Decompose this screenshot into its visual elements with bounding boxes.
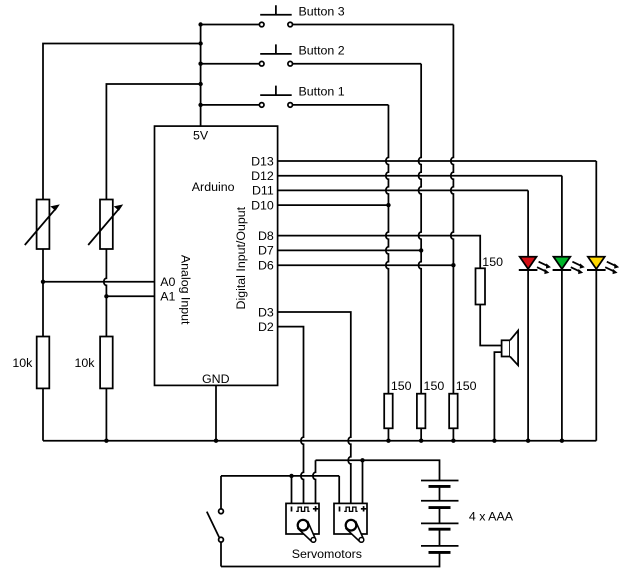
- node A0 junction: [41, 280, 45, 284]
- wire A0 node to resistor R1: [42, 282, 44, 337]
- pushbutton S3 Button 3: [259, 5, 292, 27]
- wire Button 3 left: [201, 24, 259, 26]
- node A1 junction: [104, 294, 108, 298]
- wire resistor R4 to ground rail: [420, 428, 422, 440]
- wire servo M2 plus drop: [362, 460, 364, 503]
- wire servo plus rail to battery: [316, 460, 440, 480]
- resistor R4 150: [417, 394, 426, 429]
- svg-text:GND: GND: [202, 372, 230, 386]
- wire Button 1 right: [293, 104, 389, 106]
- junction D10 on button1 bus: [386, 203, 390, 207]
- wire button2 bus vertical (hops): [419, 64, 422, 394]
- junction bus-pot2: [198, 82, 202, 86]
- svg-text:D11: D11: [252, 184, 274, 198]
- LED2 green: [553, 176, 584, 274]
- svg-text:A0: A0: [160, 275, 175, 289]
- svg-text:150: 150: [456, 379, 477, 393]
- junction R2 ground: [104, 439, 108, 443]
- wire 5V bus vertical: [200, 25, 202, 127]
- junction servo M2 plus: [360, 458, 364, 462]
- svg-text:Button 3: Button 3: [299, 4, 345, 18]
- wire LED3 to ground rail: [595, 270, 597, 441]
- junction bus-btn2: [198, 62, 202, 66]
- svg-text:D13: D13: [251, 154, 274, 168]
- wire D8 to resistor R6: [278, 236, 481, 269]
- junction D7 on button2 bus: [419, 248, 423, 252]
- wire D11 to LED column: [278, 189, 528, 191]
- resistor R3 150: [384, 394, 393, 429]
- wire 5V to pot P2: [106, 84, 200, 200]
- svg-text:D6: D6: [258, 259, 274, 273]
- wire D2 to servo M1 pulse (hops): [278, 327, 304, 504]
- potentiometer P2: [88, 200, 122, 250]
- wire Button 1 left: [201, 104, 259, 106]
- switch SW1: [207, 476, 224, 567]
- resistor R5 150: [449, 394, 458, 429]
- LED1 red: [519, 190, 550, 273]
- wire D13 to LED column: [278, 160, 597, 162]
- pushbutton S2 Button 2: [259, 44, 292, 66]
- junction R4 ground: [419, 439, 423, 443]
- servomotor M1: [286, 503, 319, 542]
- svg-text:4 x AAA: 4 x AAA: [469, 509, 514, 523]
- wire speaker to ground rail: [494, 352, 501, 441]
- svg-text:D10: D10: [251, 198, 274, 212]
- svg-text:D7: D7: [258, 244, 274, 258]
- speaker LS1: [502, 331, 518, 366]
- junction bus-btn3: [198, 22, 202, 26]
- wire node A1 to pin A1: [106, 295, 154, 297]
- junction R3 ground: [386, 439, 390, 443]
- wire 5V to pot P1: [43, 44, 201, 200]
- junction servo M1 minus: [289, 474, 293, 478]
- junction R5 ground: [451, 439, 455, 443]
- wire button3 bus vertical (hops): [451, 25, 454, 394]
- svg-text:10k: 10k: [12, 356, 33, 370]
- pushbutton S1 Button 1: [259, 86, 292, 108]
- wire node A0 to pin A0: [43, 281, 155, 283]
- wire Button 2 right: [293, 63, 421, 65]
- wire pot P2 to node A1 (hop over A0 wire): [104, 249, 107, 296]
- wire D7 to button2 bus: [278, 249, 422, 251]
- wire resistor R1 to ground rail: [42, 388, 44, 440]
- wire battery bottom to switch: [221, 552, 440, 566]
- wire Button 2 left: [201, 63, 259, 65]
- wire D6 to button3 bus: [278, 264, 454, 266]
- junction GND ground: [214, 439, 218, 443]
- svg-text:Servomotors: Servomotors: [292, 547, 362, 561]
- wire A1 node to resistor R2: [105, 296, 107, 336]
- wire D12 to LED column: [278, 175, 562, 177]
- svg-text:D12: D12: [251, 169, 274, 183]
- resistor R2 10k: [100, 337, 113, 389]
- wire D3 to servo M2 pulse (hops): [278, 312, 351, 503]
- svg-text:150: 150: [482, 255, 503, 269]
- wire D10 to button1 bus: [278, 204, 389, 206]
- svg-text:Analog Input: Analog Input: [179, 255, 193, 325]
- battery BT1 4xAAA: [421, 481, 459, 553]
- wire resistor R3 to ground rail: [387, 428, 389, 440]
- potentiometer P1: [25, 200, 59, 250]
- wire resistor R6 to speaker: [480, 305, 501, 346]
- svg-text:D2: D2: [258, 320, 274, 334]
- wire servo M1 plus drop (hop): [313, 460, 316, 503]
- junction D6 on button3 bus: [451, 263, 455, 267]
- wire button1 bus vertical (hops): [386, 105, 389, 394]
- wire Button 3 right: [293, 24, 454, 26]
- wire GND pin to ground rail: [215, 385, 217, 440]
- servomotor M2: [334, 503, 367, 542]
- resistor R6 150: [476, 268, 486, 304]
- svg-text:Arduino: Arduino: [192, 180, 235, 194]
- junction bus-btn1: [198, 103, 202, 107]
- junction LED2 ground: [560, 439, 564, 443]
- wire resistor R2 to ground rail: [105, 388, 107, 440]
- svg-text:10k: 10k: [75, 356, 96, 370]
- junction LED1 ground: [526, 439, 530, 443]
- wire pot P1 to node A0: [42, 249, 44, 282]
- Arduino U1 body: [155, 126, 278, 385]
- svg-text:D8: D8: [258, 229, 274, 243]
- svg-text:A1: A1: [160, 290, 175, 304]
- wire resistor R5 to ground rail: [452, 428, 454, 440]
- wire switch to servo minus rail: [221, 475, 339, 477]
- svg-text:Digital Input/Ouput: Digital Input/Ouput: [234, 206, 248, 309]
- junction speaker ground: [492, 439, 496, 443]
- wire LED1 to ground rail: [527, 270, 529, 441]
- svg-text:150: 150: [424, 379, 445, 393]
- junction bus-pot1: [198, 41, 202, 45]
- resistor R1 10k: [37, 337, 50, 389]
- svg-text:Button 2: Button 2: [299, 44, 345, 58]
- svg-text:5V: 5V: [193, 129, 209, 143]
- svg-text:Button 1: Button 1: [299, 85, 345, 99]
- wire servo M2 minus drop: [338, 476, 340, 504]
- svg-text:D3: D3: [258, 305, 274, 319]
- LED3 yellow: [587, 161, 618, 274]
- svg-text:150: 150: [391, 379, 412, 393]
- wire servo M1 minus drop: [291, 476, 293, 504]
- wire ground rail: [43, 440, 596, 442]
- wire LED2 to ground rail: [561, 270, 563, 441]
